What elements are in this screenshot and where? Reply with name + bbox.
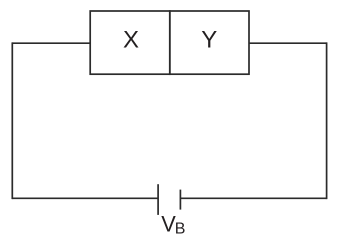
battery VB short plate <box>179 190 181 210</box>
svg-text:X: X <box>123 27 139 54</box>
wire left vertical <box>11 42 13 199</box>
wire top-right (right corner to box Y) <box>249 42 327 44</box>
wire top-left (box X to left corner) <box>12 42 90 44</box>
component X (left box) <box>90 11 170 74</box>
svg-text:Y: Y <box>201 27 217 54</box>
wire bottom-left (corner to battery) <box>12 197 158 199</box>
wire right vertical <box>326 42 328 199</box>
component Y (right box) <box>170 11 249 74</box>
battery VB long plate <box>157 184 159 215</box>
svg-text:VB: VB <box>161 212 185 238</box>
wire bottom-right (battery to corner) <box>180 197 326 199</box>
